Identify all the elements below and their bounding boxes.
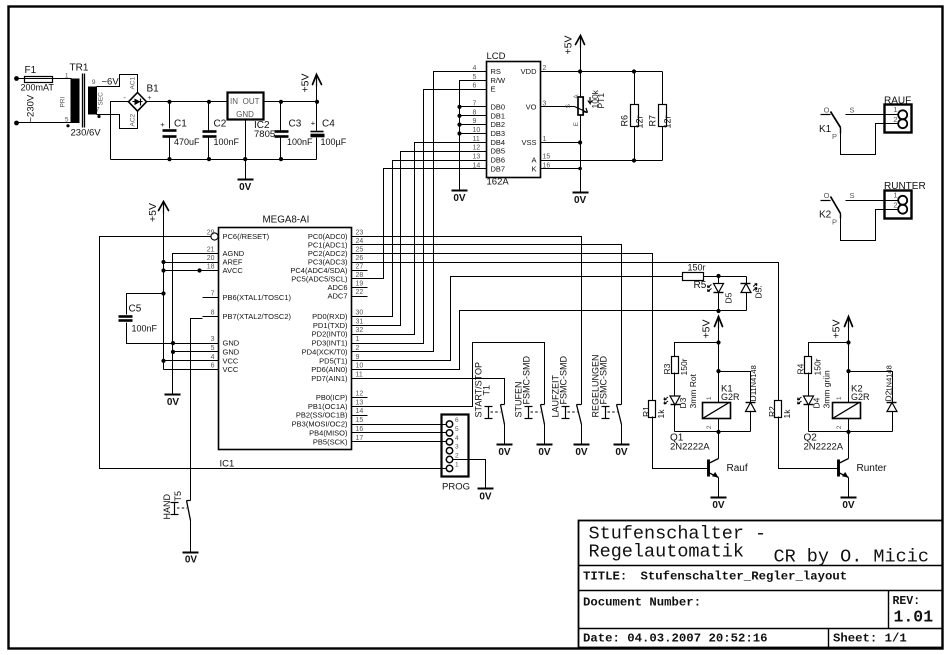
svg-text:G2R: G2R [721,392,740,402]
wire PB3 to PROG 6 [368,424,447,426]
wire R5 rail to D5b [704,276,747,278]
svg-text:PT1: PT1 [596,93,606,109]
svg-text:PB1(OC1A): PB1(OC1A) [308,402,348,411]
node dot collector Q1 [716,430,720,434]
svg-text:0V: 0V [538,447,551,458]
LCD pin 9 DB2 [471,124,487,126]
wire TR1 sec pin7 to B1 AC2 [97,111,138,129]
potentiometer PT1 100k [578,97,583,115]
svg-text:F1: F1 [25,65,37,76]
svg-text:8: 8 [211,310,215,317]
svg-text:PD5(T1): PD5(T1) [319,356,348,365]
svg-text:PRI: PRI [60,96,67,107]
svg-text:7: 7 [211,291,215,298]
wire AGND to ground line [173,254,203,395]
svg-text:10: 10 [356,363,364,370]
svg-text:D5.: D5. [754,285,764,298]
switch LAUFZEIT LAUFZEIT [577,404,582,406]
svg-text:+5V: +5V [831,320,843,339]
svg-text:2: 2 [836,425,843,429]
svg-text:IN: IN [230,97,238,106]
svg-text:E: E [573,121,580,126]
svg-text:0V: 0V [167,397,180,408]
node dot +5V rail K1 [716,340,720,344]
IC1 pin 21 AGND [203,253,219,255]
0V rail of supply [111,159,317,161]
led D4 [808,373,810,397]
svg-text:17: 17 [356,435,364,442]
svg-text:24: 24 [356,238,364,245]
IC1 pin 13 PB1(OC1A) [352,406,368,408]
capacitor C2 [208,102,210,131]
svg-text:7805: 7805 [254,129,275,140]
LCD pin 8 DB1 [471,115,487,117]
svg-text:1k: 1k [782,409,792,419]
svg-text:DB3: DB3 [491,129,506,138]
IC1 pin 14 PB2(SS/OC1B) [352,415,368,417]
svg-text:VSS: VSS [521,138,536,147]
wire K2 pole to terminal 2 [841,210,899,241]
svg-text:15: 15 [543,154,551,161]
IC1 pin 7 PB6(XTAL1/TOSC1) [203,297,219,299]
wire VCC pins [164,360,203,362]
svg-text:1k: 1k [656,409,666,419]
led D3 [674,373,676,397]
svg-text:23: 23 [356,230,364,237]
title block [579,521,943,648]
IC1 pin 8 PB7(XTAL2/TOSC2) [203,316,219,318]
IC1 pin 30 PD0(RXD) [352,316,368,318]
svg-text:18: 18 [207,264,215,271]
svg-text:22: 22 [356,289,364,296]
svg-text:RS: RS [491,67,501,76]
svg-text:2N2222A: 2N2222A [670,442,710,453]
node dot C4 top [315,100,319,104]
svg-text:O: O [824,106,830,115]
svg-text:R4: R4 [796,363,806,374]
LCD pin 7 DB0 [471,106,487,108]
svg-text:GND: GND [223,339,240,348]
svg-text:100nF: 100nF [132,324,158,334]
LCD pin 14 DB7 [471,168,487,170]
wire DB7 to pin28 [368,169,471,279]
svg-text:1: 1 [455,461,459,468]
IC1 pin 2 PD4(XCK/T0) [352,351,368,353]
svg-text:Sheet: 1/1: Sheet: 1/1 [833,632,907,646]
svg-text:GND: GND [236,110,254,119]
LCD pin 16 K [541,168,557,170]
svg-text:Runter: Runter [857,463,888,474]
svg-text:PROG: PROG [442,482,470,493]
wire coil rail K2 [809,431,893,433]
svg-text:0V: 0V [712,500,725,511]
svg-text:PD3(INT1): PD3(INT1) [312,339,348,348]
LCD pin 3 VO [541,106,557,108]
wire PC3 to R2 [368,263,779,401]
svg-text:1: 1 [543,136,547,143]
IC1 pin 9 PD5(T1) [352,360,368,362]
svg-text:DB6: DB6 [491,156,506,165]
IC1 pin 29 PC6(/RESET) [203,236,211,238]
node dot collector Q2 [846,430,850,434]
LCD pin 4 RS [471,71,487,73]
power +5V symbol top right of supply [313,75,322,85]
svg-text:0V: 0V [842,500,855,511]
svg-text:D4: D4 [812,397,822,408]
wire PB5 to PROG 4 [368,441,447,443]
IC1 pin 18 AVCC [203,270,219,272]
IC1 pin 23 PC0(ADC0) [352,236,368,238]
power +5V symbol Q2 [845,317,853,327]
svg-text:LCD: LCD [487,51,506,62]
svg-text:1: 1 [893,191,897,200]
wire emitter Q2 to ground [848,478,850,498]
svg-text:100nF: 100nF [214,137,240,147]
wire PC0 to LAUFZEIT switch [368,237,582,405]
node dot K1 D coil top [716,369,720,373]
node dot GND5 [171,350,175,354]
resistor R6 12r [634,72,636,105]
svg-text:12: 12 [473,145,481,152]
svg-text:32: 32 [356,327,364,334]
led D5 [718,277,720,284]
svg-text:S: S [565,103,572,108]
svg-text:AVCC: AVCC [223,266,244,275]
wire K1 pole to terminal 2 [841,124,899,155]
svg-text:VDD: VDD [521,67,537,76]
IC1 pin 10 PD6(AIN0) [352,369,368,371]
svg-text:R3: R3 [662,363,672,374]
svg-text:DB0: DB0 [491,102,506,111]
IC1 pin 22 ADC7 [352,296,368,298]
wire emitter Q1 to ground [718,478,720,498]
IC1 pin 24 PC1(ADC1) [352,244,368,246]
svg-text:12r: 12r [635,115,645,128]
wire DB6 to pin30 [368,161,471,317]
svg-text:T5: T5 [173,491,183,502]
node dot GND3 C5 [171,341,175,345]
wire TR1 sec pin9 to B1 AC1 [97,75,138,93]
svg-text:FSMC-SMD: FSMC-SMD [522,356,532,405]
svg-text:27: 27 [356,264,364,271]
relay coil K1 G2R [718,343,720,403]
svg-text:6: 6 [455,417,459,424]
svg-text:C2: C2 [214,119,227,130]
svg-text:4: 4 [211,354,215,361]
svg-text:1N4148: 1N4148 [885,365,894,391]
LCD pin 1 VSS [541,142,557,144]
svg-text:K2: K2 [819,210,832,221]
IC1 pin 31 PD1(TXD) [352,325,368,327]
resistor R7 12r [662,72,664,105]
wire coil rail K1 [675,431,751,433]
svg-text:~230V: ~230V [26,94,37,122]
svg-text:20: 20 [207,255,215,262]
wire AREF to +5V line [164,262,203,264]
svg-text:C3: C3 [289,119,302,130]
svg-text:26: 26 [356,255,364,262]
svg-text:PD2(INT0): PD2(INT0) [312,330,348,339]
node dot C3 top [279,100,283,104]
svg-text:PD0(RXD): PD0(RXD) [312,312,348,321]
power +5V symbol MCU [159,202,169,211]
ground 0V below LCD [452,190,468,192]
node dot R5 LED [716,274,720,278]
svg-text:13: 13 [356,399,364,406]
wire F1 to TR1 pri pin1 [53,78,72,80]
node dot C2 top [207,100,211,104]
LCD pin 11 DB4 [471,142,487,144]
IC1 pin 6 VCC [203,369,219,371]
svg-text:1: 1 [836,396,843,400]
svg-text:DB5: DB5 [491,147,506,156]
svg-text:TR1: TR1 [70,63,89,74]
svg-text:13: 13 [473,154,481,161]
switch T1 START/STOP [501,404,505,406]
ground 0V below Q2 [841,497,857,499]
svg-text:DB1: DB1 [491,111,506,120]
svg-text:GND: GND [223,347,240,356]
svg-text:S: S [849,106,854,115]
svg-text:P: P [832,218,837,227]
svg-text:0V: 0V [239,182,252,193]
IC1 pin 17 PB5(SCK) [352,441,368,443]
svg-text:4: 4 [473,65,477,72]
svg-text:14: 14 [473,162,481,169]
svg-text:1: 1 [893,105,897,114]
svg-text:0V: 0V [479,492,492,503]
svg-text:16: 16 [356,426,364,433]
svg-text:T1: T1 [482,385,492,396]
IC1 pin 4 VCC [203,360,219,362]
svg-text:PD1(TXD): PD1(TXD) [313,321,348,330]
wire E to pin1 [368,90,471,344]
svg-text:R1: R1 [641,406,651,417]
wire PB7 to HAND switch [191,319,203,501]
svg-text:12r: 12r [663,115,673,128]
wire PB4 to PROG 5 [368,432,447,434]
node dot LED rail [716,309,720,313]
svg-text:8: 8 [473,109,477,116]
relay contact K1 [821,114,831,116]
svg-text:1: 1 [356,336,360,343]
svg-text:1: 1 [65,73,69,80]
capacitor C5 100nF [127,294,164,315]
svg-text:4: 4 [455,435,459,442]
svg-text:7: 7 [473,100,477,107]
relay contact K2 [821,200,831,202]
resistor R2 1k [775,401,782,418]
svg-text:30: 30 [356,310,364,317]
svg-text:VO: VO [526,102,537,111]
svg-text:R2: R2 [767,406,777,417]
switch T5 HAND [187,500,191,502]
wire VDD rail [557,71,663,73]
svg-text:3mm grün: 3mm grün [822,370,832,409]
svg-text:470uF: 470uF [174,137,200,147]
svg-text:0V: 0V [453,193,466,204]
IC1 pin 27 PC4(ADC4/SDA) [352,270,368,272]
svg-text:HAND: HAND [162,493,172,519]
IC1 pin 15 PB3(MOSI/OC2) [352,424,368,426]
wire PROG pin2 to ground [453,460,486,489]
svg-text:150r: 150r [688,263,706,273]
wire K to 0V stem [557,168,581,170]
svg-text:10: 10 [473,127,481,134]
svg-text:D3: D3 [678,397,688,408]
capacitor C1 [169,102,171,129]
svg-text:R/W: R/W [491,76,507,85]
svg-text:1N4148: 1N4148 [749,365,758,391]
svg-text:16: 16 [543,162,551,169]
svg-text:+5V: +5V [701,320,713,339]
node dot C1 top [167,100,171,104]
svg-text:C5: C5 [129,304,142,315]
wire PC1 to REGELUNGEN switch [368,245,622,405]
svg-text:5: 5 [211,345,215,352]
svg-text:PB2(SS/OC1B): PB2(SS/OC1B) [296,411,348,420]
diode D2 1N4148 [849,372,893,403]
node dot R6 bottom [632,158,636,162]
capacitor C4 electrolytic [316,102,318,131]
wire DB5 to pin31 [368,152,471,326]
resistor R3 150r [672,357,679,374]
wire PC2 to R1 [368,254,653,401]
node dot AREF [161,260,165,264]
bridge rectifier B1 [129,93,147,112]
svg-text:2: 2 [543,65,547,72]
wire R1 to Q1 base [653,417,709,469]
wire GND pins to ground line [173,343,203,345]
svg-text:2: 2 [356,345,360,352]
power +5V symbol LCD [576,36,585,45]
wire IC2 GND down [245,120,247,160]
node dot C2 bottom [207,157,211,161]
node dot VDD +5V [578,69,582,73]
svg-text:PD6(AIN0): PD6(AIN0) [311,365,348,374]
node dot AVCC [161,268,165,272]
terminal dot input bottom [14,121,19,126]
svg-text:12: 12 [356,391,364,398]
svg-text:OUT: OUT [243,97,260,106]
svg-text:1.01: 1.01 [894,608,934,627]
wire PB1 to STUFEN switch [368,343,545,407]
svg-text:G2R: G2R [851,392,870,402]
IC1 pin 12 PB0(ICP) [352,397,368,399]
wire RESET to PROG pin 1 [100,237,447,469]
svg-text:0V: 0V [498,447,511,458]
svg-text:FSMC-SMD: FSMC-SMD [559,356,569,405]
led D5. [746,277,748,284]
svg-text:FSMC-SMD: FSMC-SMD [599,356,609,405]
wire R2 to Q2 base [779,417,839,469]
svg-text:162A: 162A [487,177,510,188]
LCD pin 2 VDD [541,71,557,73]
wire PD7 to START/STOP switch [368,379,505,405]
svg-text:PD7(AIN1): PD7(AIN1) [311,374,348,383]
svg-text:K: K [531,164,536,173]
resistor R4 150r [805,357,812,374]
svg-text:PB0(ICP): PB0(ICP) [316,393,348,402]
wire VO to PT1 wiper [557,106,575,108]
svg-text:TITLE:: TITLE: [583,570,627,584]
IC1 pin 20 AREF [203,262,219,264]
svg-text:11: 11 [473,136,480,143]
transistor Q1 2N2222A [718,432,720,459]
svg-text:28: 28 [356,272,364,279]
resistor R5 150r [683,273,704,281]
wire DB4 to pin32 [368,143,471,335]
svg-text:6: 6 [473,83,477,90]
svg-text:P: P [832,132,837,141]
IC1 pin 25 PC2(ADC2) [352,253,368,255]
IC1 pin 28 PC5(ADC5/SCL) [352,278,368,280]
svg-text:2: 2 [893,201,897,210]
svg-text:230/6V: 230/6V [71,128,102,139]
ground 0V below MCU left [165,394,181,396]
ground 0V below Q1 [711,497,727,499]
svg-text:0V: 0V [615,447,628,458]
svg-text:C4: C4 [322,119,335,130]
svg-text:R5: R5 [694,280,707,291]
node dot K row [578,167,582,171]
svg-text:7: 7 [96,107,100,114]
node dot R6 top [632,69,636,73]
svg-text:6: 6 [211,363,215,370]
svg-text:A: A [531,156,536,165]
LCD pin 15 A [541,160,557,162]
svg-text:DB2: DB2 [491,120,506,129]
fuse F1 [25,77,53,83]
svg-text:2N2222A: 2N2222A [804,442,844,453]
svg-text:PB7(XTAL2/TOSC2): PB7(XTAL2/TOSC2) [223,312,292,321]
svg-text:AC2: AC2 [130,113,137,126]
svg-text:9: 9 [356,354,360,361]
svg-text:100µF: 100µF [321,137,347,147]
svg-text:2: 2 [893,115,897,124]
svg-text:2: 2 [706,425,713,429]
svg-text:Date: 04.03.2007 20:52:16: Date: 04.03.2007 20:52:16 [583,632,767,646]
svg-text:DB7: DB7 [491,164,506,173]
svg-text:200mAT: 200mAT [21,83,55,93]
ground 0V below IC2 [238,179,254,181]
svg-text:+: + [311,119,316,128]
LCD pin 12 DB5 [471,151,487,153]
svg-text:3mm Rot: 3mm Rot [688,373,698,408]
svg-text:IC1: IC1 [220,459,235,470]
svg-text:SEC: SEC [98,92,105,106]
wire input top [17,78,25,80]
svg-text:REV:: REV: [893,595,921,608]
svg-text:DB4: DB4 [491,138,506,147]
svg-text:+5V: +5V [563,36,575,55]
svg-text:9: 9 [473,118,477,125]
svg-text:3: 3 [543,100,547,107]
svg-text:150r: 150r [679,358,689,375]
svg-text:3: 3 [211,336,215,343]
wire +5V rail to R4 [809,343,849,357]
svg-text:PB5(SCK): PB5(SCK) [313,437,348,446]
svg-text:PB4(MISO): PB4(MISO) [309,428,348,437]
svg-text:AC1: AC1 [130,76,137,89]
IC1 pin 32 PD2(INT0) [352,334,368,336]
svg-text:E: E [491,85,496,94]
svg-text:K1: K1 [819,124,832,135]
svg-text:CR by O. Micic: CR by O. Micic [774,547,929,568]
node dot C3 bottom [279,157,283,161]
IC1 pin 11 PD7(AIN1) [352,378,368,380]
node dot VSS [578,140,582,144]
